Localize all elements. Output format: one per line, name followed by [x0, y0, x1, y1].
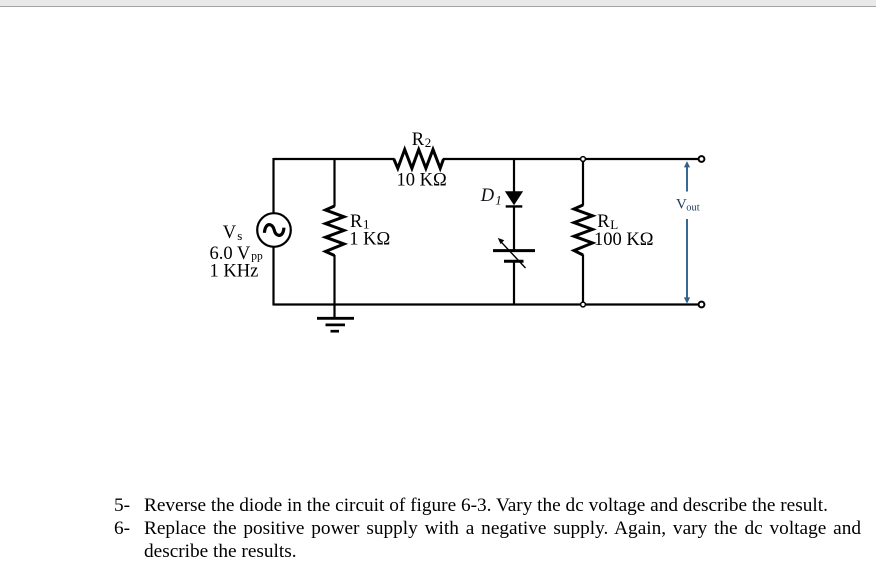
label 6.0 Vpp: [210, 244, 264, 264]
wire: R1 branch from resistor through bottom rail to ground: [333, 255, 335, 318]
node: junction on bottom rail at RL branch: [581, 302, 586, 307]
svg-text:2: 2: [425, 135, 432, 150]
svg-text:R: R: [597, 212, 610, 232]
svg-text:10 KΩ: 10 KΩ: [397, 170, 447, 190]
svg-text:D: D: [480, 186, 495, 206]
svg-text:1: 1: [495, 192, 502, 207]
svg-text:R: R: [412, 130, 425, 150]
variable capacitor (varactor capacitance) plates with adjustment arrow: [493, 238, 535, 268]
node: output terminal bottom (open circle): [699, 302, 705, 308]
wire: RL branch from top node to resistor: [582, 159, 584, 206]
top toolbar strip: [0, 0, 876, 7]
svg-text:1 KHz: 1 KHz: [210, 261, 259, 281]
label R1: [350, 212, 370, 232]
svg-text:s: s: [237, 228, 242, 243]
svg-text:1 KΩ: 1 KΩ: [349, 230, 390, 250]
wire: R1 branch from top rail to resistor: [333, 158, 335, 207]
svg-text:out: out: [686, 202, 700, 213]
label Vs: [223, 223, 243, 243]
node: output terminal top (open circle): [699, 156, 705, 162]
resistor R1 zigzag body: [326, 206, 345, 256]
label 1 KHz: [210, 261, 259, 281]
wire: D1 branch diode to variable capacitor: [513, 207, 515, 250]
diode D1 (cathode-down triangle): [506, 192, 523, 207]
wire: D1 branch capacitor to bottom rail: [513, 262, 515, 306]
wire: D1 branch from top rail to diode: [513, 158, 515, 193]
label 1 KOhm: [349, 230, 390, 250]
numbered instruction text items 5 and 6: [0, 0, 876, 1]
label 100 KOhm: [594, 230, 653, 250]
wire: left branch upper segment (top rail to source): [272, 158, 274, 214]
svg-text:100 KΩ: 100 KΩ: [594, 230, 653, 250]
resistor RL zigzag body: [574, 205, 593, 255]
wire: bottom rail from source to output terminal: [274, 303, 700, 305]
wire: top rail from source to output terminal: [274, 158, 700, 160]
svg-text:V: V: [223, 223, 237, 243]
wire: RL branch resistor to bottom node: [582, 255, 584, 305]
label 10 KOhm: [397, 170, 447, 190]
resistor R2 zigzag body (in top rail): [394, 150, 444, 169]
ground symbol: [317, 318, 354, 331]
source Vs (AC sine source circle): [257, 213, 291, 247]
label D1: [480, 186, 502, 207]
node: junction on top rail at RL branch: [581, 157, 586, 162]
Vout measurement arrow (double-headed, blue): [684, 161, 690, 304]
label RL: [597, 212, 618, 232]
label R2: [412, 130, 432, 150]
wire: left branch lower segment (source to bottom rail): [272, 247, 274, 306]
label Vout: [676, 196, 700, 213]
